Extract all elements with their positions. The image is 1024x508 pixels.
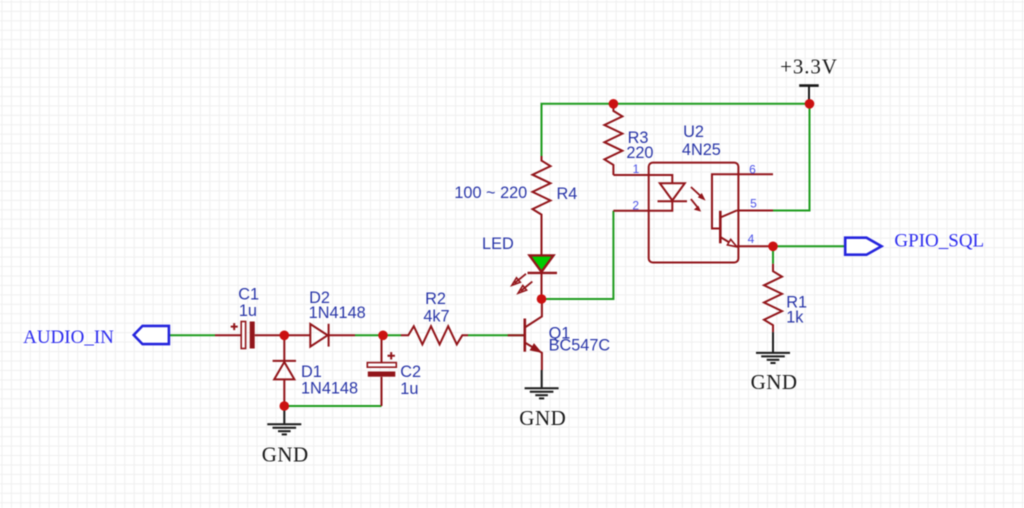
resistor R2: [401, 290, 468, 344]
svg-text:1k: 1k: [786, 309, 804, 327]
svg-text:1: 1: [633, 162, 640, 176]
node junction pin4-R1-port: [768, 242, 778, 252]
svg-text:1u: 1u: [239, 302, 257, 320]
node junction rail +3.3V: [805, 99, 815, 109]
node junction C1-D2-D1: [280, 331, 290, 341]
svg-text:4: 4: [748, 232, 755, 246]
ground under Q1: [519, 370, 566, 430]
wire C1 left pin: [215, 334, 241, 336]
wire LED cathode lead: [541, 273, 543, 299]
svg-text:GND: GND: [751, 370, 798, 394]
svg-text:R2: R2: [425, 290, 446, 308]
transistor Q1: [525, 299, 611, 370]
wire AUDIO_IN to C1: [169, 334, 215, 336]
node junction rail-R3: [609, 99, 619, 109]
LED D3: [482, 235, 557, 293]
wire D1 bottom to C2 bottom: [284, 405, 381, 407]
wire R4 top rail to +3.3V: [542, 104, 810, 156]
wire C1 right pin to D2 anode: [255, 334, 311, 336]
diode U2 internal LED: [658, 183, 706, 211]
port GPIO_SQL: [845, 230, 984, 254]
svg-text:D1: D1: [301, 363, 322, 381]
svg-text:100 ~ 220: 100 ~ 220: [454, 184, 527, 202]
diode D2: [309, 289, 366, 347]
svg-text:1N4148: 1N4148: [309, 304, 366, 322]
power +3.3V: [780, 55, 838, 104]
ground under R1: [751, 332, 798, 394]
wire D1 top lead: [283, 335, 285, 361]
svg-text:4N25: 4N25: [682, 141, 721, 159]
wire +3.3V down to U2 pin5: [773, 104, 810, 211]
resistor R1: [764, 264, 807, 332]
svg-text:2: 2: [632, 199, 639, 213]
svg-text:5: 5: [750, 197, 757, 211]
wire U2 pin6 base feed: [712, 174, 773, 228]
wire C2 bottom lead: [381, 377, 383, 406]
svg-text:GND: GND: [519, 406, 566, 430]
svg-text:220: 220: [626, 144, 653, 162]
port AUDIO_IN: [23, 326, 169, 348]
svg-text:C2: C2: [400, 363, 421, 381]
resistor R4: [454, 156, 577, 255]
wire Q1 base lead: [508, 334, 524, 336]
ground under D1: [262, 406, 309, 466]
svg-text:R4: R4: [556, 185, 577, 203]
wire U2 pin4 to GPIO_SQL port and R1: [773, 246, 845, 263]
wire LED cathode to U2 pin2: [542, 211, 614, 299]
svg-text:1N4148: 1N4148: [301, 380, 358, 398]
diode D1: [273, 361, 358, 398]
svg-text:C1: C1: [238, 286, 259, 304]
wire U2 pin5: [737, 210, 773, 212]
svg-text:4k7: 4k7: [423, 307, 449, 325]
node junction D1-C2-GND: [280, 401, 290, 411]
svg-text:LED: LED: [482, 235, 514, 253]
svg-text:GND: GND: [262, 442, 309, 466]
svg-text:AUDIO_IN: AUDIO_IN: [23, 327, 114, 348]
transistor U2 phototransistor: [720, 211, 737, 247]
svg-text:+3.3V: +3.3V: [780, 55, 838, 79]
wire R2 to Q1 base: [468, 334, 524, 336]
svg-text:1u: 1u: [400, 380, 418, 398]
svg-text:6: 6: [749, 163, 756, 177]
capacitor C1: [231, 286, 259, 349]
wire C2 top lead: [381, 335, 383, 363]
node junction LED-Q1-pin2: [537, 294, 547, 304]
wire D2 cathode to R2: [355, 334, 401, 336]
svg-text:U2: U2: [683, 123, 704, 141]
wire D1 bottom lead: [283, 379, 285, 406]
svg-text:GPIO_SQL: GPIO_SQL: [894, 230, 984, 251]
svg-text:BC547C: BC547C: [549, 337, 611, 355]
wire U2 pin2: [613, 201, 672, 211]
wire U2 pin4: [737, 245, 773, 247]
op-amp U2 optocoupler 4N25: [649, 123, 739, 262]
node junction D2-R2-C2: [378, 331, 388, 341]
resistor R3: [604, 104, 653, 175]
wire D2 cathode pin: [329, 334, 355, 336]
wire U2 pin1: [613, 175, 672, 183]
capacitor C2: [367, 352, 421, 398]
